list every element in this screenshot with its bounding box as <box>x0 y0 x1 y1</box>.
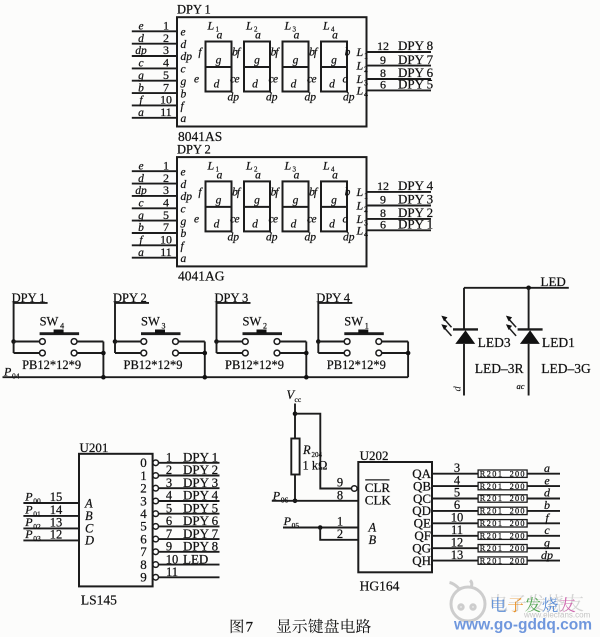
wire right pole stubs SW2 <box>280 341 306 343</box>
7-seg digit L1 of DPY1: outline <box>206 42 232 92</box>
svg-text:L: L <box>356 59 364 73</box>
display module DPY1 box <box>177 17 367 126</box>
resistor R201 200 (row QD) <box>478 507 527 514</box>
wire pin 7 (b) of DPY1 <box>132 92 177 94</box>
7-seg digit L1 mid line (segment g bar) <box>206 206 232 208</box>
svg-text:e: e <box>181 27 186 39</box>
wire QG to resistor <box>432 547 478 549</box>
svg-text:L: L <box>322 158 330 172</box>
svg-text:e: e <box>273 74 278 86</box>
wire QH to resistor <box>432 560 478 562</box>
resistor R204 1k body <box>291 439 299 475</box>
svg-text:dp: dp <box>135 45 147 57</box>
inverter bubble output 5 <box>153 524 159 530</box>
svg-text:200: 200 <box>510 482 526 491</box>
7-seg digit L2 mid line (segment g bar) <box>244 206 270 208</box>
svg-text:g: g <box>181 76 187 88</box>
svg-text:SW: SW <box>243 315 262 329</box>
wire output 6 (pin 7) <box>159 538 220 540</box>
svg-text:ac: ac <box>517 381 525 391</box>
wire pin 3 (dp) of DPY2 <box>132 195 177 197</box>
wire pin 2 (d) of DPY2 <box>132 183 177 185</box>
svg-text:D: D <box>84 534 94 548</box>
svg-text:9: 9 <box>380 193 386 207</box>
resistor R201 200 (row QB) <box>478 482 527 489</box>
resistor R201 200 (row QA) <box>478 470 527 477</box>
svg-text:CLK: CLK <box>365 492 392 507</box>
wire pin 12 digit select to DPY4 <box>367 191 432 193</box>
svg-text:DPY 1: DPY 1 <box>398 217 433 232</box>
svg-text:200: 200 <box>510 556 526 565</box>
wire pin 1 (e) of DPY2 <box>132 170 177 172</box>
wire pin 5 (g) of DPY2 <box>132 220 177 222</box>
junction at SW4 right pole <box>101 351 106 356</box>
inverter bubble output 0 <box>153 460 159 466</box>
svg-text:dp: dp <box>266 92 278 104</box>
IC U201 LS145 box <box>79 454 153 587</box>
svg-text:R: R <box>302 443 311 457</box>
7-seg digit L3 of DPY2: outline <box>283 181 309 231</box>
junction at SW3 right pole <box>203 351 208 356</box>
svg-text:g: g <box>254 194 260 206</box>
switch SW3 actuator bar <box>141 332 181 335</box>
svg-text:200: 200 <box>510 519 526 528</box>
svg-text:11: 11 <box>160 245 172 259</box>
svg-text:dp: dp <box>305 231 317 243</box>
svg-text:U202: U202 <box>360 448 389 463</box>
inverter bubble output 8 <box>153 562 159 568</box>
svg-text:1: 1 <box>364 191 368 200</box>
svg-text:DPY 2: DPY 2 <box>177 143 211 157</box>
wire pin 9 digit select to DPY3 <box>367 205 432 207</box>
svg-text:b: b <box>345 47 351 59</box>
wire left pole stubs SW3 <box>115 341 141 343</box>
svg-text:g: g <box>254 55 260 67</box>
svg-text:4041AG: 4041AG <box>178 269 225 284</box>
svg-text:g: g <box>138 70 144 82</box>
svg-text:d: d <box>214 79 220 91</box>
svg-text:d: d <box>138 33 144 45</box>
svg-text:c: c <box>181 64 186 76</box>
svg-text:dp: dp <box>228 231 240 243</box>
svg-text:11: 11 <box>160 105 172 119</box>
junction at SW1 right pole <box>406 351 411 356</box>
wire output 0 (pin 1) <box>159 462 220 464</box>
svg-text:b: b <box>138 82 144 94</box>
svg-text:e: e <box>311 213 316 225</box>
7-seg digit L2 mid line (segment g bar) <box>244 66 270 68</box>
svg-text:200: 200 <box>510 544 526 553</box>
switch SW4 actuator bar <box>40 332 80 335</box>
switch SW3 contacts <box>141 339 147 345</box>
svg-text:e: e <box>234 74 239 86</box>
svg-text:d: d <box>181 39 187 51</box>
svg-text:dp: dp <box>343 92 355 104</box>
wire pin 9 digit select to DPY7 <box>367 65 432 67</box>
svg-text:dp: dp <box>266 231 278 243</box>
junction on LED net <box>526 286 531 291</box>
wire resistor to segment e <box>527 485 560 487</box>
svg-text:e: e <box>194 213 199 225</box>
wire pin 6 digit select to DPY5 <box>367 89 432 91</box>
inverter bubble output 3 <box>153 498 159 504</box>
svg-text:d: d <box>329 79 335 91</box>
inverter bubble CLR <box>352 486 358 492</box>
svg-text:a: a <box>255 169 261 181</box>
wire SW2 to P04 bus <box>305 342 307 378</box>
junction at switch SW1 left <box>316 339 321 344</box>
svg-text:LED–3R: LED–3R <box>475 361 524 376</box>
svg-text:dp: dp <box>541 548 553 562</box>
junction P05 branch <box>318 525 323 530</box>
svg-text:SW: SW <box>141 315 160 329</box>
wire LED1 anode <box>528 288 530 329</box>
svg-text:a: a <box>332 169 338 181</box>
svg-text:d: d <box>252 218 258 230</box>
svg-text:e: e <box>234 213 239 225</box>
svg-text:LED–3G: LED–3G <box>541 361 591 376</box>
7-seg digit L4 mid line (segment g bar) <box>321 206 347 208</box>
wire pin 10 (f) of DPY1 <box>132 104 177 106</box>
wire P05 to pin 1 <box>283 527 358 529</box>
wire pin 10 (f) of DPY2 <box>132 244 177 246</box>
wire resistor to segment g <box>527 547 560 549</box>
svg-text:LED: LED <box>183 551 208 566</box>
wire P06 to CLK pin 8 <box>272 500 359 502</box>
svg-text:a: a <box>181 253 187 265</box>
svg-text:R201: R201 <box>480 532 504 541</box>
wire SW4 to P04 bus <box>102 342 104 378</box>
inverter bubble output 9 <box>153 575 159 581</box>
wire P03 to pin 12 <box>23 539 79 541</box>
svg-text:2: 2 <box>263 322 267 331</box>
resistor R201 200 (row QE) <box>478 520 527 527</box>
svg-text:R201: R201 <box>480 494 504 503</box>
wire pin 2 (d) of DPY1 <box>132 43 177 45</box>
svg-text:b: b <box>181 228 187 240</box>
svg-text:d: d <box>453 386 464 392</box>
svg-text:d: d <box>138 173 144 185</box>
wire pin 4 (c) of DPY2 <box>132 207 177 209</box>
svg-text:1 kΩ: 1 kΩ <box>303 459 328 473</box>
svg-text:P: P <box>283 514 292 528</box>
svg-text:g: g <box>331 194 337 206</box>
svg-text:A: A <box>84 496 93 510</box>
junction Vcc branch <box>293 411 298 416</box>
svg-text:dp: dp <box>181 191 193 203</box>
svg-text:P: P <box>24 527 33 541</box>
wire QF to resistor <box>432 535 478 537</box>
svg-text:g: g <box>293 55 299 67</box>
wire pin 11 (a) of DPY2 <box>132 257 177 259</box>
inverter bubble output 7 <box>153 549 159 555</box>
svg-text:15: 15 <box>50 490 63 504</box>
svg-text:c: c <box>138 58 143 70</box>
watermark logo circle <box>450 581 486 622</box>
svg-text:b: b <box>345 186 351 198</box>
7-seg digit L3 of DPY1: outline <box>283 42 309 92</box>
wire pin 12 digit select to DPY8 <box>367 51 432 53</box>
wire P00 to pin 15 <box>23 502 79 504</box>
watermark text elecfans gray <box>491 594 507 611</box>
junction SW2 on P04 bus <box>304 375 309 380</box>
svg-text:dp: dp <box>305 92 317 104</box>
svg-text:200: 200 <box>510 532 526 541</box>
svg-text:9: 9 <box>380 53 386 67</box>
switch SW2 actuator bar <box>243 332 283 335</box>
pin name CLR with overline <box>365 479 389 481</box>
svg-text:L: L <box>207 158 215 172</box>
svg-text:9: 9 <box>337 475 343 489</box>
wire Vcc down <box>294 404 296 439</box>
inverter bubble output 1 <box>153 473 159 479</box>
svg-text:g: g <box>216 55 222 67</box>
IC U202 HG164 box <box>358 462 432 572</box>
svg-text:c: c <box>342 213 347 225</box>
display module DPY2 box <box>177 157 367 266</box>
resistor R201 200 (row QG) <box>478 545 527 552</box>
wire pin 7 (b) of DPY2 <box>132 232 177 234</box>
svg-text:03: 03 <box>33 534 41 543</box>
LED LED3 symbol <box>453 328 478 330</box>
svg-text:8: 8 <box>337 488 343 502</box>
svg-text:QH: QH <box>412 553 431 568</box>
wire right pole stubs SW3 <box>178 341 204 343</box>
wire pin 5 (g) of DPY1 <box>132 80 177 82</box>
wire output 3 (pin 4) <box>159 500 220 502</box>
svg-text:P: P <box>24 490 33 504</box>
watermark text colored <box>492 597 506 612</box>
inverter bubble output 6 <box>153 536 159 542</box>
svg-text:a: a <box>332 30 338 42</box>
wire resistor to segment b <box>527 510 560 512</box>
7-seg digit L1 mid line (segment g bar) <box>206 66 232 68</box>
svg-text:L: L <box>284 158 292 172</box>
svg-text:LED3: LED3 <box>478 335 511 350</box>
svg-text:e: e <box>273 213 278 225</box>
wire pin 6 digit select to DPY1 <box>367 229 432 231</box>
svg-text:b: b <box>138 222 144 234</box>
switch SW1 contacts <box>344 339 350 345</box>
7-seg digit L2 of DPY2: outline <box>244 181 270 231</box>
resistor R201 200 (row QH) <box>478 557 527 564</box>
svg-text:L: L <box>356 223 364 237</box>
svg-text:200: 200 <box>510 507 526 516</box>
svg-text:LS145: LS145 <box>81 593 117 608</box>
svg-text:L: L <box>356 199 364 213</box>
svg-text:12: 12 <box>377 179 389 193</box>
junction at switch SW4 left <box>11 339 16 344</box>
svg-text:PB12*12*9: PB12*12*9 <box>225 358 284 372</box>
svg-text:L: L <box>356 45 364 59</box>
svg-text:a: a <box>294 30 300 42</box>
svg-text:dp: dp <box>343 231 355 243</box>
svg-text:02: 02 <box>33 522 41 531</box>
wire right pole stubs SW4 <box>77 341 103 343</box>
svg-text:L: L <box>245 158 253 172</box>
wire output 1 (pin 2) <box>159 475 220 477</box>
svg-text:c: c <box>181 204 186 216</box>
wire QA to resistor <box>432 473 478 475</box>
wire resistor to segment c <box>527 535 560 537</box>
switch SW1 actuator bar <box>344 332 384 335</box>
svg-text:3: 3 <box>364 79 368 88</box>
wire resistor to segment a <box>527 473 560 475</box>
wire QD to resistor <box>432 510 478 512</box>
svg-text:PB12*12*9: PB12*12*9 <box>124 358 183 372</box>
7-seg digit L2 of DPY1: outline <box>244 42 270 92</box>
svg-text:1: 1 <box>364 52 368 61</box>
wire output 7 (pin 9) <box>159 551 220 553</box>
wire P01 to pin 14 <box>23 515 79 517</box>
junction SW3 on P04 bus <box>203 375 208 380</box>
svg-text:a: a <box>138 247 144 259</box>
7-seg digit L4 of DPY1: outline <box>321 42 347 92</box>
svg-text:05: 05 <box>292 521 300 530</box>
svg-text:00: 00 <box>33 497 41 506</box>
svg-text:PB12*12*9: PB12*12*9 <box>22 358 81 372</box>
svg-text:1: 1 <box>365 322 369 331</box>
resistor R201 200 (row QC) <box>478 495 527 502</box>
svg-text:LED1: LED1 <box>542 335 575 350</box>
svg-text:2: 2 <box>364 205 368 214</box>
wire resistor to segment dp <box>527 560 560 562</box>
svg-text:dp: dp <box>181 51 193 63</box>
wire QE to resistor <box>432 522 478 524</box>
svg-text:L: L <box>322 19 330 33</box>
wire left pole stubs SW4 <box>14 341 40 343</box>
svg-text:a: a <box>294 169 300 181</box>
svg-text:c: c <box>138 198 143 210</box>
svg-text:6: 6 <box>380 218 386 232</box>
svg-text:04: 04 <box>12 372 20 381</box>
svg-text:R201: R201 <box>480 544 504 553</box>
wire QB to resistor <box>432 485 478 487</box>
7-seg digit L3 mid line (segment g bar) <box>283 66 309 68</box>
svg-text:L: L <box>356 83 364 97</box>
svg-text:a: a <box>217 169 223 181</box>
junction at switch SW3 left <box>113 339 118 344</box>
svg-text:4: 4 <box>364 230 368 239</box>
wire left pole stubs SW2 <box>217 341 243 343</box>
wire pin 3 (dp) of DPY1 <box>132 55 177 57</box>
svg-text:13: 13 <box>451 548 464 562</box>
wire right pole stubs SW1 <box>382 341 408 343</box>
svg-text:SW: SW <box>344 315 363 329</box>
svg-text:200: 200 <box>510 494 526 503</box>
svg-text:L: L <box>356 185 364 199</box>
wire pin 11 (a) of DPY1 <box>132 117 177 119</box>
inverter bubble output 4 <box>153 511 159 517</box>
svg-text:d: d <box>291 79 297 91</box>
svg-text:e: e <box>311 74 316 86</box>
svg-text:12: 12 <box>50 527 63 541</box>
svg-text:e: e <box>138 21 143 33</box>
wire QC to resistor <box>432 498 478 500</box>
svg-text:R201: R201 <box>480 507 504 516</box>
wire pin 1 (e) of DPY1 <box>132 30 177 32</box>
svg-text:a: a <box>217 30 223 42</box>
junction at SW2 right pole <box>304 351 309 356</box>
wire pin 8 digit select to DPY2 <box>367 218 432 220</box>
svg-text:R201: R201 <box>480 519 504 528</box>
svg-text:6: 6 <box>380 78 386 92</box>
svg-text:DPY 5: DPY 5 <box>398 77 433 92</box>
LED LED1 symbol <box>518 328 543 330</box>
wire from DPY3 label <box>217 303 251 342</box>
svg-text:d: d <box>291 218 297 230</box>
svg-text:e: e <box>194 74 199 86</box>
svg-text:4: 4 <box>364 90 368 99</box>
wire LED3 anode <box>463 288 465 329</box>
wire LED net top <box>464 287 569 289</box>
wire output 2 (pin 3) <box>159 487 220 489</box>
wire SW3 to P04 bus <box>204 342 206 378</box>
svg-text:e: e <box>181 166 186 178</box>
svg-text:cc: cc <box>295 395 302 404</box>
wire resistor to segment f <box>527 522 560 524</box>
svg-text:d: d <box>252 79 258 91</box>
wire from DPY2 label <box>115 303 149 342</box>
wire output 4 (pin 5) <box>159 513 220 515</box>
svg-text:2: 2 <box>337 527 343 541</box>
svg-text:SW: SW <box>40 315 59 329</box>
7-seg digit L3 mid line (segment g bar) <box>283 206 309 208</box>
junction SW4 on P04 bus <box>101 375 106 380</box>
junction at switch SW2 left <box>214 339 219 344</box>
inverter bubble output 2 <box>153 485 159 491</box>
svg-text:4: 4 <box>60 322 64 331</box>
svg-text:dp: dp <box>135 185 147 197</box>
svg-text:R201: R201 <box>480 556 504 565</box>
wire from DPY1 label <box>14 303 48 342</box>
svg-text:12: 12 <box>377 39 389 53</box>
svg-text:L: L <box>284 19 292 33</box>
svg-text:e: e <box>138 160 143 172</box>
svg-text:2: 2 <box>364 65 368 74</box>
svg-text:L: L <box>207 19 215 33</box>
svg-text:DPY 1: DPY 1 <box>177 3 211 17</box>
svg-text:c: c <box>342 74 347 86</box>
wire LED LED3 cathode <box>463 344 465 396</box>
wire output 8 (pin 10) <box>159 564 220 566</box>
svg-text:200: 200 <box>510 469 526 478</box>
svg-text:b: b <box>181 88 187 100</box>
svg-text:d: d <box>214 218 220 230</box>
svg-text:11: 11 <box>166 565 178 579</box>
wire LED LED1 cathode <box>528 344 530 396</box>
wire P04 bus <box>3 376 409 378</box>
wire output 9 (pin 11) <box>159 576 220 578</box>
wire pin 8 digit select to DPY6 <box>367 78 432 80</box>
wire from DPY4 label <box>318 303 352 342</box>
switch SW4 contacts <box>40 339 46 345</box>
resistor R201 200 (row QF) <box>478 532 527 539</box>
7-seg digit L4 of DPY2: outline <box>321 181 347 231</box>
svg-text:9: 9 <box>140 570 147 585</box>
wire left pole stubs SW1 <box>318 341 344 343</box>
svg-text:HG164: HG164 <box>360 579 400 594</box>
svg-text:U201: U201 <box>80 440 109 455</box>
svg-text:06: 06 <box>281 495 289 504</box>
svg-text:a: a <box>138 107 144 119</box>
junction R204/P06 <box>293 499 298 504</box>
svg-text:g: g <box>216 194 222 206</box>
svg-text:PB12*12*9: PB12*12*9 <box>327 358 386 372</box>
7-seg digit L4 mid line (segment g bar) <box>321 66 347 68</box>
wire P02 to pin 13 <box>23 527 79 529</box>
svg-text:R201: R201 <box>480 482 504 491</box>
